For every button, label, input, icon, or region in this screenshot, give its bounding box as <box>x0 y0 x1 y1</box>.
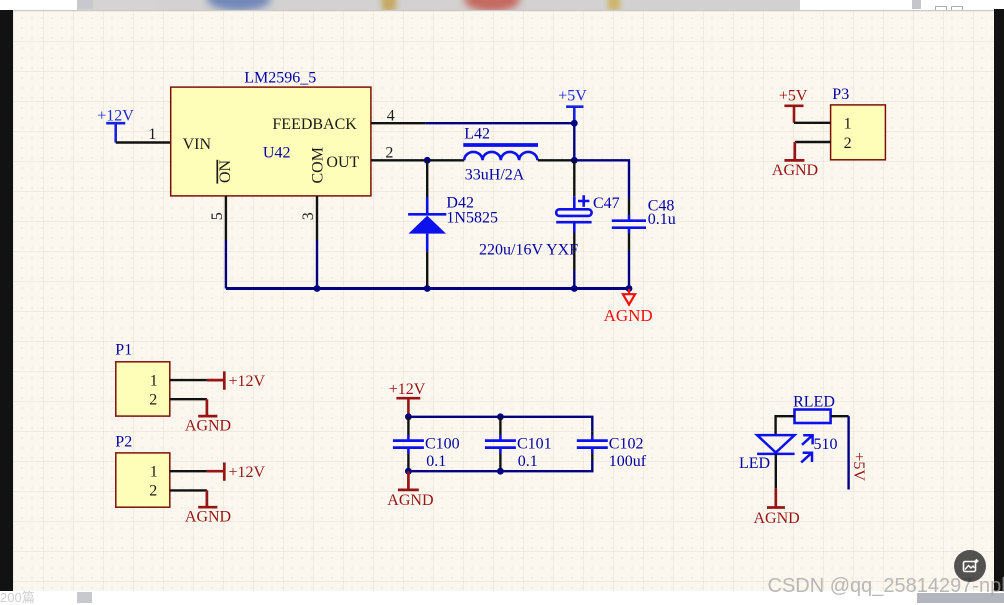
small gray tab top-left <box>77 0 93 9</box>
wire cap bank bottom rail <box>408 460 592 471</box>
capacitor C100 <box>393 417 424 471</box>
two small icon outlines top-right <box>935 6 947 14</box>
connector P3 <box>831 105 886 160</box>
junction pin3 <box>314 285 321 292</box>
svg-text:C102: C102 <box>609 435 644 452</box>
capacitor C47 (polarized) <box>556 160 591 288</box>
power port +5V (P3, bar) <box>779 87 808 122</box>
wire P3 pin2 <box>795 141 831 143</box>
wire LED cathode down <box>775 454 777 489</box>
node junction at C47 <box>571 157 578 164</box>
wire +5V net (vertical) <box>847 416 849 489</box>
capacitor C101 <box>485 417 516 471</box>
node bottom rail C101 <box>497 468 504 475</box>
svg-text:AGND: AGND <box>185 417 231 434</box>
node bottom rail C100 <box>405 468 412 475</box>
power port AGND (P3) <box>784 142 804 160</box>
junction C48 / AGND <box>626 285 633 292</box>
node +5V junction (feedback) <box>571 120 578 127</box>
svg-text:VIN: VIN <box>183 136 212 153</box>
power port +5V (top) <box>558 88 587 124</box>
wire cap bank top rail <box>408 417 592 431</box>
svg-text:AGND: AGND <box>604 306 653 325</box>
pin 5 wire <box>225 196 227 289</box>
svg-text:C47: C47 <box>593 195 620 212</box>
ground rail wire <box>226 287 629 290</box>
wire P2 pin2 <box>170 489 207 491</box>
top strip: sliver of photo from page above <box>77 0 800 10</box>
capacitor C48 <box>612 199 646 289</box>
svg-text:FEEDBACK: FEEDBACK <box>272 116 357 133</box>
svg-text:AGND: AGND <box>772 162 818 179</box>
svg-text:1N5825: 1N5825 <box>446 209 498 226</box>
svg-text:2: 2 <box>149 483 157 500</box>
svg-text:0.1: 0.1 <box>518 453 538 470</box>
svg-text:OUT: OUT <box>326 154 359 171</box>
svg-text:5: 5 <box>209 212 226 220</box>
bottom-right gray strip <box>917 593 1004 603</box>
svg-text:100uf: 100uf <box>609 453 647 470</box>
wire RLED left to LED <box>776 416 795 434</box>
LED D (diode symbol with arrows) <box>757 435 814 463</box>
wire +5V node down <box>573 123 575 160</box>
watermark <box>768 576 1004 596</box>
power port AGND (LED) <box>767 488 785 507</box>
wire P1 pin2 <box>170 398 207 400</box>
svg-text:1: 1 <box>150 463 158 480</box>
connector P1 <box>116 362 170 416</box>
svg-text:0.1: 0.1 <box>426 453 446 470</box>
power port AGND (red arrow) <box>623 289 635 305</box>
svg-text:+5V: +5V <box>850 452 867 481</box>
node top rail C101 <box>497 413 504 420</box>
power port +12V (P2, bar) <box>207 463 224 481</box>
svg-text:P3: P3 <box>832 86 849 103</box>
bottom small gray tab <box>77 592 92 603</box>
connector P2 <box>116 453 170 507</box>
svg-text:C101: C101 <box>517 435 552 452</box>
power port +12V (input) <box>97 108 134 143</box>
svg-text:2: 2 <box>844 135 852 152</box>
svg-text:AGND: AGND <box>754 510 800 527</box>
power port +12V (P1, bar) <box>207 371 224 389</box>
svg-text:+12V: +12V <box>229 464 266 481</box>
bottom white strip of page <box>0 591 1004 603</box>
svg-text:+12V: +12V <box>229 373 266 390</box>
svg-text:1: 1 <box>150 372 158 389</box>
left black bar <box>0 10 13 591</box>
node switch junction at diode <box>424 157 431 164</box>
wire P3 pin1 <box>794 122 831 124</box>
wire inductor to +5V node <box>538 159 575 161</box>
svg-text:AGND: AGND <box>185 509 231 526</box>
svg-text:1: 1 <box>844 116 852 133</box>
svg-text:+5V: +5V <box>558 88 587 105</box>
right black bar <box>994 9 1004 593</box>
regulator U42 (LM2596_5) body <box>171 87 371 196</box>
inductor L42 <box>463 145 538 160</box>
power port AGND (P1) <box>198 399 217 416</box>
power port AGND (cap bank) <box>398 471 419 490</box>
junction C47 <box>571 285 578 292</box>
wire to C48 branch <box>574 160 629 199</box>
svg-text:2: 2 <box>149 392 157 409</box>
pin 4 stub <box>371 122 425 124</box>
svg-text:L42: L42 <box>464 126 490 143</box>
svg-text:LM2596_5: LM2596_5 <box>244 70 316 87</box>
wire pin1 VIN <box>116 141 171 143</box>
svg-text:33uH/2A: 33uH/2A <box>465 166 525 183</box>
resistor RLED <box>795 410 831 424</box>
svg-text:3: 3 <box>300 212 317 220</box>
pin 3 wire <box>316 196 318 289</box>
svg-text:LED: LED <box>739 455 770 472</box>
pin 2 stub and wire to inductor <box>371 159 464 161</box>
wire feedback net to +5V node <box>425 122 574 124</box>
floating action button (image tool) <box>954 550 986 582</box>
bottom-left partial text of page behind <box>0 591 60 603</box>
wire RLED right corner <box>831 415 849 417</box>
svg-text:ON: ON <box>217 159 234 183</box>
svg-text:U42: U42 <box>263 144 291 161</box>
capacitor C102 <box>577 431 608 460</box>
node top rail C100 <box>405 413 412 420</box>
power port AGND (P2) <box>198 490 217 507</box>
svg-text:C100: C100 <box>425 435 460 452</box>
svg-text:P1: P1 <box>115 342 132 359</box>
svg-text:0.1u: 0.1u <box>648 211 676 228</box>
svg-text:+12V: +12V <box>389 381 426 398</box>
gray scrollbar tab top-right <box>912 0 921 9</box>
svg-text:COM: COM <box>310 147 327 183</box>
power port +12V (cap bank) <box>389 381 426 417</box>
svg-text:1: 1 <box>148 126 156 143</box>
diode D42 <box>408 160 446 288</box>
wire P2 pin1 <box>170 470 207 472</box>
svg-text:2: 2 <box>385 144 393 161</box>
svg-text:RLED: RLED <box>793 393 835 410</box>
svg-text:+5V: +5V <box>779 87 808 104</box>
wire P1 pin1 <box>170 379 207 381</box>
svg-text:510: 510 <box>814 436 838 453</box>
svg-text:P2: P2 <box>115 433 132 450</box>
svg-text:220u/16V YXF: 220u/16V YXF <box>479 242 578 259</box>
svg-text:AGND: AGND <box>387 492 433 509</box>
junction diode <box>424 285 431 292</box>
